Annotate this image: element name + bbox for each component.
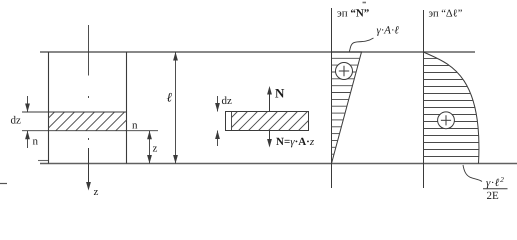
svg-text:эп “Δℓ”: эп “Δℓ” (429, 8, 463, 19)
column right edge (126, 52, 128, 164)
leader squiggle to N diagram top (349, 38, 373, 52)
column centerline (dash-dot) (88, 25, 90, 140)
small artifact dash bottom left (0, 183, 7, 185)
svg-text:N: N (275, 86, 285, 101)
svg-text:dz: dz (11, 115, 22, 127)
svg-text:γ·A·ℓ: γ·A·ℓ (377, 25, 400, 37)
fraction bar (483, 188, 508, 190)
dl diagram hatch (424, 59, 480, 157)
top support line (40, 51, 475, 53)
svg-text:z: z (153, 143, 158, 155)
svg-text:n: n (33, 136, 39, 148)
dl diagram plus sign circle (438, 112, 455, 129)
strip bottom edge line (section n-n, extended right for z dim) (22, 130, 158, 132)
leader squiggle to max elongation value (463, 165, 482, 182)
dz dimension arrows (middle element) (215, 96, 220, 146)
svg-text:dz: dz (222, 95, 233, 107)
N diagram plus sign circle (336, 63, 353, 80)
svg-text:эп “N”: эп “N” (337, 8, 369, 20)
N diagram triangle outline (332, 52, 362, 164)
column left edge (48, 52, 50, 164)
strip top edge line (22, 111, 127, 113)
dz dimension arrows (left column) (25, 96, 30, 148)
N force arrow up (267, 86, 272, 112)
small artifact speck top (363, 2, 367, 4)
svg-text:ℓ: ℓ (167, 90, 173, 105)
N = gamma A z arrow down (267, 131, 272, 148)
dl diagram parabolic boundary (424, 52, 479, 164)
z axis arrow below column (86, 148, 91, 191)
middle element hatch (232, 112, 309, 131)
hatched strip dz in column (49, 112, 127, 131)
z dimension line (147, 131, 152, 164)
svg-text:z: z (94, 186, 99, 198)
bottom datum line (40, 163, 517, 165)
svg-text:N=γ·A·z: N=γ·A·z (276, 136, 315, 148)
dl diagram axis (423, 10, 425, 188)
svg-text:n: n (132, 120, 138, 132)
N diagram axis (331, 8, 333, 188)
svg-text:2E: 2E (487, 190, 500, 202)
middle cut element rectangle (226, 112, 309, 131)
l dimension line (173, 52, 178, 164)
N diagram hatch (332, 58, 360, 161)
small artifact dash near column base (38, 160, 48, 162)
